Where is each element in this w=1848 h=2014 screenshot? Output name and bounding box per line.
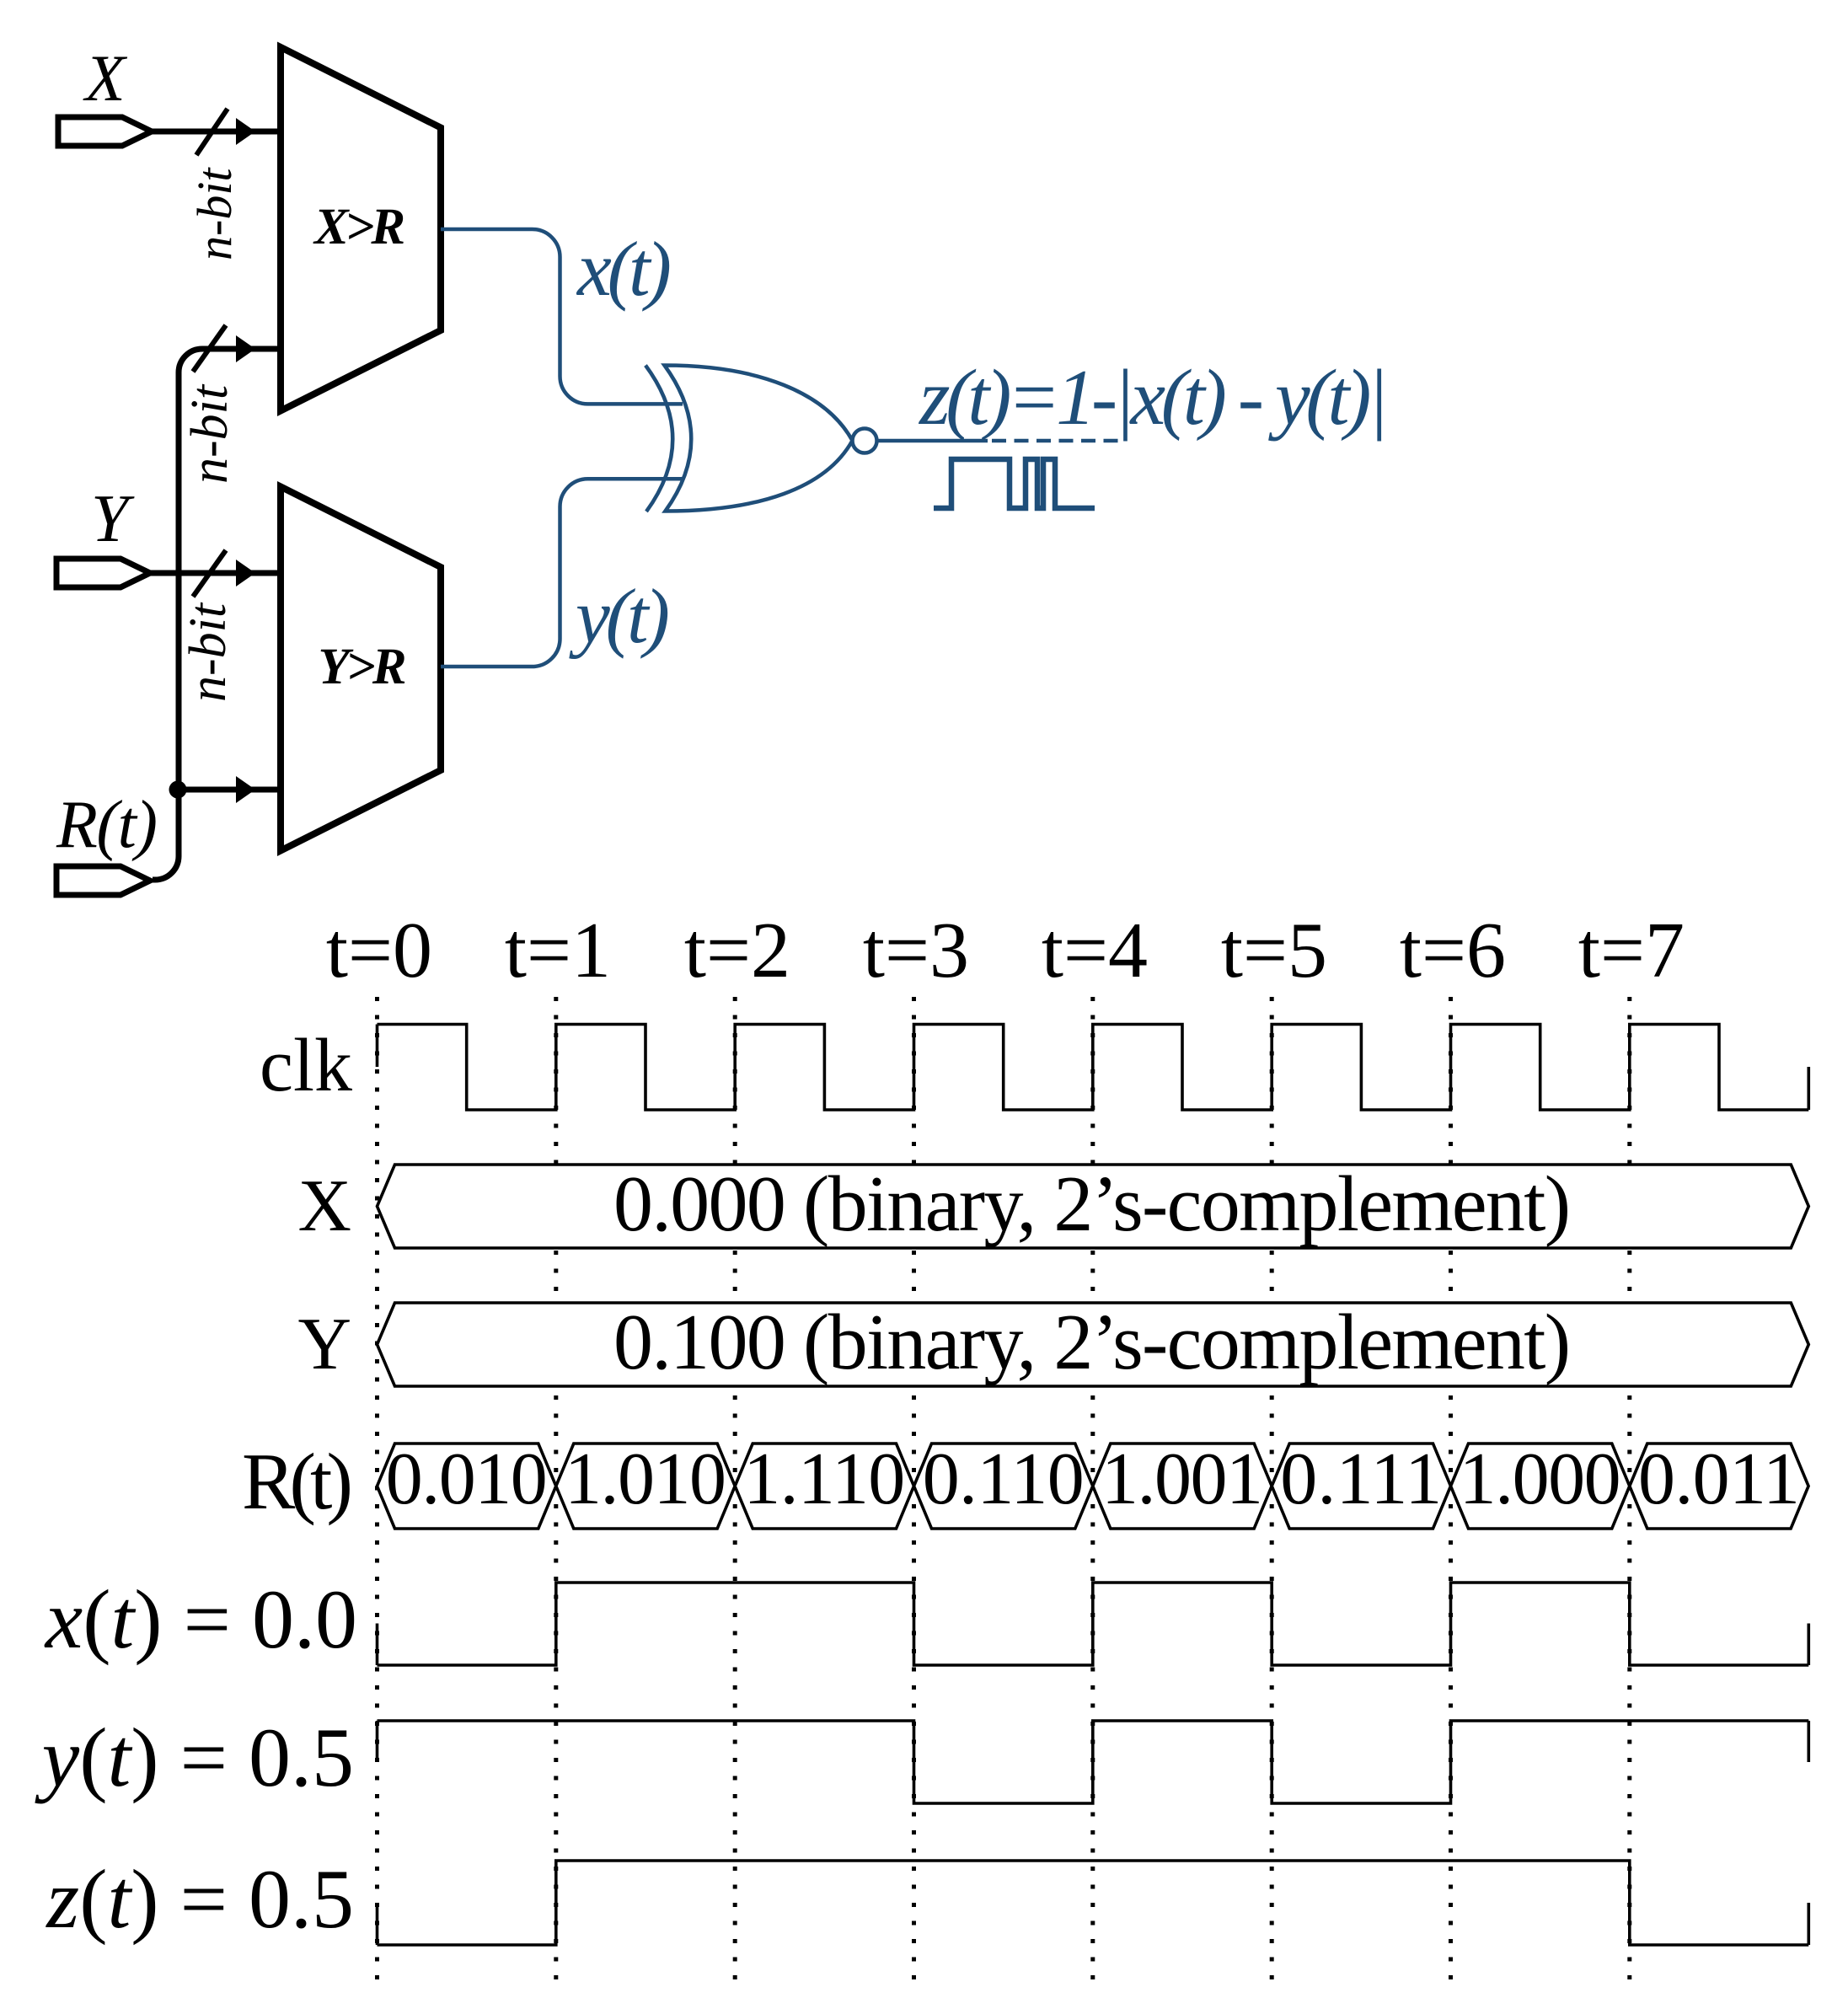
time tick labels t=0..t=7 (326, 907, 1685, 994)
comparator U2 Y>R (281, 487, 441, 851)
svg-text:0.000 (binary, 2’s-complement): 0.000 (binary, 2’s-complement) (613, 1160, 1571, 1248)
R(t) bus cell 1.000 (1451, 1444, 1630, 1529)
output wire z(t) solid (877, 439, 988, 443)
X bus hexagon (378, 1165, 1809, 1248)
xnor gate G1 input-side extra arc (645, 366, 672, 512)
svg-text:Y: Y (297, 1304, 351, 1385)
svg-text:Y>R: Y>R (319, 639, 407, 695)
svg-text:n-bit: n-bit (181, 383, 238, 484)
svg-text:0.010: 0.010 (386, 1438, 548, 1520)
grid line t=4 (1090, 997, 1095, 1979)
svg-text:n-bit: n-bit (179, 602, 237, 702)
bus slash on Y wire (193, 550, 226, 597)
pulse sketch under z(t) (934, 459, 1095, 508)
grid line t=3 (912, 997, 916, 1979)
wire junction to U2 port 2 (179, 787, 278, 793)
R(t) bus cell 1.110 (735, 1444, 913, 1529)
y(t) end tick (1808, 1721, 1811, 1762)
svg-text:1.000: 1.000 (1460, 1438, 1621, 1520)
svg-text:X: X (83, 41, 128, 115)
arrowhead on U1 port2 wire (236, 335, 255, 362)
x(t) end tick (1808, 1624, 1811, 1666)
wire R(t) to U1 port 2 (153, 349, 278, 880)
svg-text:R(t): R(t) (56, 788, 158, 862)
svg-text:y(t): y(t) (569, 573, 670, 659)
svg-text:t=1: t=1 (505, 907, 611, 994)
input port R(t) connector (56, 866, 150, 895)
svg-text:z(t) = 0.5: z(t) = 0.5 (45, 1852, 354, 1946)
svg-text:n-bit: n-bit (187, 167, 242, 260)
arrowhead on U2 port2 wire (236, 776, 255, 803)
bus slash on X wire (196, 109, 228, 155)
clk start tick (376, 1025, 379, 1068)
arrowhead on Y wire (236, 560, 255, 587)
R(t) bus cell 1.010 (556, 1444, 735, 1529)
wire y(t) from U2 to gate G1 (441, 479, 683, 667)
z(t) start tick (376, 1903, 379, 1945)
clk waveform (378, 1025, 1809, 1111)
Y bus hexagon (378, 1303, 1809, 1386)
svg-text:t=5: t=5 (1221, 907, 1327, 994)
R(t) bus cell 0.010 (378, 1444, 556, 1529)
comparator U1 X>R (281, 47, 441, 411)
svg-text:t=6: t=6 (1400, 907, 1506, 994)
svg-text:1.010: 1.010 (565, 1438, 726, 1520)
x(t) start tick (376, 1624, 379, 1666)
arrowhead on X wire (236, 118, 255, 145)
svg-text:z(t)=1-|x(t) - y(t)|: z(t)=1-|x(t) - y(t)| (918, 354, 1389, 442)
R(t) bus cell 1.001 (1093, 1444, 1272, 1529)
dotted grid lines t=0..t=7 (378, 997, 1630, 1979)
input port Y connector (56, 559, 150, 587)
svg-text:t=3: t=3 (863, 907, 969, 994)
svg-text:t=4: t=4 (1042, 907, 1148, 994)
svg-text:t=0: t=0 (326, 907, 432, 994)
svg-text:t=7: t=7 (1578, 907, 1685, 994)
grid line t=7 (1627, 997, 1631, 1979)
bus slash on U1 port2 wire (193, 325, 226, 372)
R(t) bus cell 0.110 (914, 1444, 1093, 1529)
svg-text:t=2: t=2 (684, 907, 790, 994)
grid line t=0 (375, 997, 379, 1979)
svg-text:x(t): x(t) (576, 226, 672, 312)
svg-text:y(t) = 0.5: y(t) = 0.5 (35, 1711, 354, 1804)
svg-text:X>R: X>R (313, 199, 405, 255)
grid line t=1 (554, 997, 558, 1979)
junction node on R bus (169, 781, 187, 799)
inverter bubble of G1 (853, 429, 877, 453)
clk end tick (1808, 1067, 1811, 1110)
svg-text:clk: clk (260, 1024, 352, 1107)
x(t) waveform (378, 1583, 1809, 1665)
z(t) waveform (378, 1861, 1809, 1945)
svg-text:X: X (297, 1165, 351, 1247)
svg-text:0.011: 0.011 (1638, 1438, 1800, 1520)
svg-text:0.110: 0.110 (923, 1438, 1085, 1520)
wire Y input to comparator U2 (150, 570, 277, 576)
wire x(t) from U1 to gate G1 (441, 229, 683, 404)
R(t) bus cell 0.011 (1630, 1444, 1808, 1529)
grid line t=6 (1449, 997, 1453, 1979)
z(t) end tick (1808, 1903, 1811, 1945)
xnor gate G1 body (665, 366, 853, 512)
grid line t=2 (733, 997, 737, 1979)
svg-text:1.001: 1.001 (1101, 1438, 1263, 1520)
output wire z(t) dashed (992, 439, 1120, 443)
grid line t=5 (1270, 997, 1274, 1979)
svg-text:0.111: 0.111 (1280, 1438, 1442, 1520)
input port X connector (58, 117, 152, 146)
R(t) bus cell 0.111 (1272, 1444, 1450, 1529)
svg-text:x(t) = 0.0: x(t) = 0.0 (44, 1572, 357, 1666)
svg-text:0.100 (binary, 2’s-complement): 0.100 (binary, 2’s-complement) (613, 1299, 1571, 1386)
y(t) start tick (376, 1721, 379, 1762)
svg-text:1.110: 1.110 (743, 1438, 905, 1520)
wire X input to comparator U1 (152, 129, 277, 135)
svg-text:Y: Y (91, 482, 135, 556)
svg-text:R(t): R(t) (242, 1437, 353, 1526)
y(t) waveform (378, 1721, 1809, 1803)
